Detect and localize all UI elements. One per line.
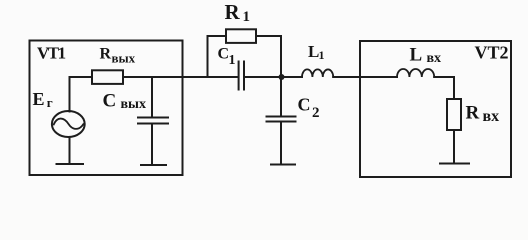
svg-text:R: R bbox=[225, 0, 241, 24]
terminal bar C2 bbox=[271, 164, 295, 166]
terminal bar Rvh bbox=[440, 163, 469, 165]
wire Cvyh riser bottom bbox=[151, 124, 153, 165]
wire L1 to Lvh bbox=[333, 76, 397, 78]
wire generator bottom riser bbox=[69, 137, 71, 164]
terminal bar Cvyh bbox=[141, 164, 166, 166]
wire C2 riser bottom bbox=[280, 122, 282, 164]
svg-text:C: C bbox=[103, 91, 117, 112]
svg-text:L: L bbox=[410, 45, 423, 66]
svg-text:1: 1 bbox=[319, 48, 325, 62]
junction node bbox=[279, 74, 285, 80]
svg-text:вых: вых bbox=[112, 51, 136, 66]
resistor Rvyh bbox=[92, 70, 123, 84]
svg-text:VT1: VT1 bbox=[37, 44, 66, 63]
capacitor C2 plate top bbox=[267, 116, 296, 118]
capacitor Cvyh plate top bbox=[138, 117, 168, 119]
svg-text:г: г bbox=[47, 95, 53, 110]
capacitor C1 plate left bbox=[238, 62, 240, 90]
resistor R1 bbox=[226, 29, 256, 43]
resistor Rvh bbox=[447, 99, 461, 130]
svg-text:R: R bbox=[466, 103, 480, 124]
inductor Lvh bbox=[397, 69, 434, 77]
wire C2 riser top bbox=[280, 77, 282, 116]
svg-text:1: 1 bbox=[229, 53, 236, 68]
wire C1 to L1 bbox=[245, 76, 302, 78]
svg-text:вх: вх bbox=[427, 51, 442, 66]
svg-text:вх: вх bbox=[483, 108, 500, 125]
svg-text:2: 2 bbox=[312, 105, 320, 121]
wire Lvh to Rvh corner bbox=[434, 77, 454, 99]
svg-text:R: R bbox=[100, 46, 112, 63]
capacitor C1 plate right bbox=[243, 62, 245, 90]
generator Eg bbox=[52, 111, 85, 137]
svg-text:1: 1 bbox=[243, 9, 251, 25]
svg-text:C: C bbox=[218, 46, 230, 63]
box VT2 bbox=[360, 41, 511, 177]
terminal bar Eg bbox=[57, 163, 84, 165]
svg-text:C: C bbox=[298, 95, 311, 115]
wire R1 left riser bbox=[208, 36, 227, 77]
wire generator top riser bbox=[70, 77, 93, 112]
svg-text:вых: вых bbox=[121, 97, 147, 112]
inductor L1 bbox=[302, 69, 333, 77]
wire Rvyh to C1 bbox=[123, 76, 238, 78]
svg-text:VT2: VT2 bbox=[475, 43, 509, 63]
capacitor C2 plate bottom bbox=[267, 121, 296, 123]
svg-text:E: E bbox=[33, 89, 45, 109]
capacitor Cvyh plate bottom bbox=[138, 123, 168, 125]
wire R1 right top bbox=[256, 36, 281, 77]
box VT1 bbox=[30, 41, 183, 176]
generator sine bbox=[54, 119, 84, 129]
wire Cvyh riser top bbox=[151, 78, 153, 117]
wire Rvh bottom riser bbox=[453, 130, 455, 163]
